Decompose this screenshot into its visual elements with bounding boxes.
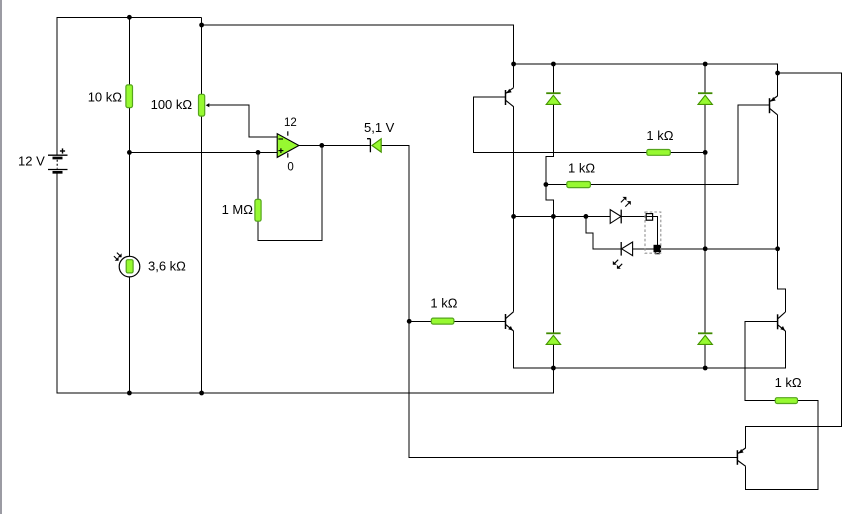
wire Q1 base loop	[473, 97, 647, 152]
node R6 / D3 column	[703, 150, 708, 155]
wire Q3 collector to Q4	[778, 115, 786, 312]
node rail / D2	[551, 62, 556, 67]
wire Q1 emitter	[513, 64, 515, 88]
svg-text:1 kΩ: 1 kΩ	[430, 296, 457, 311]
wire diode D4 column lower	[552, 344, 554, 368]
wire diode D3 column upper	[704, 64, 706, 93]
wire mid row to opamp plus	[129, 151, 277, 153]
node bridge left output	[511, 214, 516, 219]
connector dashed outline	[645, 212, 661, 253]
wire pot wiper to opamp minus	[209, 105, 278, 137]
op-amp U1	[277, 131, 299, 157]
wire pot top	[201, 25, 203, 94]
wire R6 to right column	[670, 151, 705, 153]
wire LED2 to socket	[633, 248, 655, 250]
wire diode D3 column lower	[704, 104, 706, 248]
wire 1M feedback loop	[258, 145, 322, 240]
svg-text:1 kΩ: 1 kΩ	[646, 128, 673, 143]
wire plug interconnect	[653, 216, 658, 245]
node rail / Q1 emitter	[511, 62, 516, 67]
transistor Q5 (PNP bottom)	[737, 448, 745, 466]
window left border	[0, 0, 2, 514]
wire LED1 to plug	[621, 215, 652, 217]
node rail / Q3 emitter	[775, 71, 780, 76]
connector socket (lower square)	[654, 245, 661, 253]
LED LD1 (right pointing)	[610, 197, 631, 224]
wire jog left column	[546, 152, 554, 216]
node divider mid (R1/R3)	[127, 150, 132, 155]
node bottom rail / R2	[199, 391, 204, 396]
svg-text:3,6 kΩ: 3,6 kΩ	[148, 259, 186, 274]
wire base row lower-left NPN	[409, 320, 431, 322]
wire R7 to Q3 base	[590, 105, 769, 184]
resistor R6 1k	[647, 150, 671, 156]
wire diode D2 column upper	[552, 64, 554, 93]
battery V1 12V	[48, 148, 68, 172]
wire 10k branch lower	[128, 108, 130, 257]
resistor R7 1k	[567, 182, 591, 188]
svg-text:12 V: 12 V	[18, 153, 45, 168]
node D5 column / socket row	[703, 246, 708, 251]
resistor R5 1k	[431, 318, 454, 324]
wire opamp output	[299, 144, 371, 146]
wire battery- bottom rail	[57, 172, 553, 393]
svg-text:1 kΩ: 1 kΩ	[775, 375, 802, 390]
diode D4	[546, 333, 560, 344]
wire diode D4 column upper	[552, 216, 554, 333]
transistor Q4 (NPN bottom-right)	[778, 312, 786, 331]
wire Q1-Q2 collector column	[513, 107, 515, 312]
node D4 column / motor row	[551, 214, 556, 219]
node emitter row / D5	[703, 366, 708, 371]
wire Q4 base loop	[745, 321, 778, 400]
wire Q3 emitter	[777, 73, 779, 96]
wire motor row left	[514, 215, 611, 217]
transistor Q2 (NPN bottom-left)	[506, 312, 514, 331]
resistor R8 1k	[775, 398, 797, 404]
wire socket to right column	[661, 248, 778, 250]
svg-text:1 MΩ: 1 MΩ	[222, 202, 254, 217]
resistor R4 1M	[255, 199, 261, 221]
wire bridge top rail	[514, 64, 778, 73]
wire 1M feedback top	[257, 152, 259, 199]
zener diode D1 5.1V	[367, 139, 381, 153]
wire top feed to bridge	[202, 17, 514, 64]
node opamp output / feedback	[319, 143, 324, 148]
potentiometer R2 100k	[199, 94, 210, 116]
diode D3	[698, 93, 712, 104]
node top feed / R2 top	[199, 23, 204, 28]
diode D2	[546, 93, 560, 104]
node emitter row / ground riser	[551, 366, 556, 371]
wire R7 left	[546, 184, 567, 186]
svg-text:10 kΩ: 10 kΩ	[88, 89, 123, 104]
node zener column / R5	[407, 319, 412, 324]
wire LED2 branch	[586, 216, 621, 248]
wire R5 to Q2 base	[454, 320, 506, 322]
svg-text:0: 0	[287, 161, 293, 173]
wire zener to down column	[381, 145, 737, 457]
transistor Q3 (PNP top-right)	[770, 96, 778, 115]
resistor R1 10k	[126, 85, 133, 108]
wire diode D5 column upper	[704, 249, 706, 333]
wire right outer loop	[746, 73, 842, 448]
diode D5	[698, 333, 712, 344]
connector plug (upper square)	[646, 214, 652, 221]
wire R8 to Q5 collector	[746, 401, 818, 490]
wire LDR to bottom rail	[128, 277, 130, 393]
node R7 / Q1 base branch	[544, 182, 549, 187]
transistor Q1 (PNP top-left)	[506, 88, 514, 107]
node bottom rail / R3	[127, 391, 132, 396]
node opamp +input / R4	[256, 150, 261, 155]
svg-text:100 kΩ: 100 kΩ	[151, 97, 193, 112]
LDR R3 3.6k	[114, 253, 140, 277]
node bridge right output	[775, 246, 780, 251]
wire diode D5 column lower	[704, 344, 706, 368]
svg-text:5,1 V: 5,1 V	[364, 120, 395, 135]
node LED branch	[584, 214, 589, 219]
wire diode D2 column lower	[552, 104, 554, 152]
wire pot bottom	[201, 116, 203, 393]
node rail / D3	[703, 62, 708, 67]
svg-text:12: 12	[284, 117, 297, 129]
node battery+ / R1 top	[127, 15, 132, 20]
LED LD2 (left pointing)	[613, 242, 633, 269]
svg-text:1 kΩ: 1 kΩ	[568, 161, 595, 176]
wire emitter row	[514, 331, 786, 368]
wire battery+ top rail	[57, 17, 201, 155]
wire 10k branch upper	[128, 17, 130, 85]
